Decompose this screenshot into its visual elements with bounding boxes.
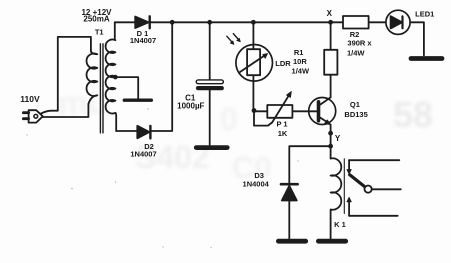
transistor Q1 emitter stroke with arrow: [320, 118, 327, 123]
LDR circle: [236, 45, 273, 82]
transformer T1 primary winding: [87, 51, 98, 105]
svg-text:R1: R1: [294, 48, 304, 57]
potentiometer P1 arrow: [272, 95, 289, 123]
plug body: [29, 110, 43, 122]
svg-text:X: X: [327, 9, 333, 18]
diode D1: [135, 17, 148, 29]
transistor Q1 collector stroke: [320, 97, 330, 104]
node D2 rail junction: [170, 20, 175, 25]
node X: [328, 20, 333, 25]
svg-text:1N4004: 1N4004: [243, 180, 270, 189]
LDR diagonal arrow: [240, 55, 265, 72]
svg-text:10R: 10R: [293, 57, 307, 66]
wire LDR bottom to P1 junction: [252, 75, 254, 110]
ground K1: [318, 239, 345, 244]
wire D2 cathode up to top rail: [151, 22, 172, 131]
wire R2 to LED1: [369, 21, 386, 23]
wire C1 branch: [209, 22, 211, 145]
svg-text:1000µF: 1000µF: [177, 101, 204, 110]
svg-text:T1: T1: [95, 27, 104, 36]
LDR light arrow 2: [233, 34, 238, 40]
faint page show-through watermarks: [57, 83, 433, 185]
resistor R2: [343, 16, 369, 29]
wire Q1 emitter down through Y to relay coil: [330, 125, 332, 159]
wire primary top: plug to transformer primary: [41, 37, 91, 114]
transformer T1 core: [100, 44, 103, 133]
relay armature bar: [350, 175, 366, 188]
ground center tap: [124, 98, 151, 101]
svg-text:1N4007: 1N4007: [130, 150, 156, 159]
LDR light arrow 1: [227, 36, 232, 42]
wire R1 branch: X down to R1: [330, 22, 332, 50]
svg-text:LED1: LED1: [415, 9, 434, 18]
svg-text:0: 0: [220, 101, 238, 137]
relay common line: [372, 188, 401, 190]
wire top rail left (secondary top to D1): [115, 21, 135, 23]
diode D3 (cathode up): [282, 186, 297, 201]
LED1 circle: [386, 10, 410, 34]
ground LED1: [411, 56, 442, 61]
svg-text:1K: 1K: [278, 129, 288, 138]
relay contact NC top line: [349, 159, 399, 161]
plug prong top: [23, 111, 28, 114]
transformer T1 secondary winding: [106, 22, 117, 131]
svg-text:Q1: Q1: [350, 100, 360, 109]
svg-text:250mA: 250mA: [83, 15, 109, 24]
svg-text:LDR: LDR: [275, 59, 291, 68]
wire P1 right to Q1 base: [292, 110, 308, 112]
relay contact down arrow: [348, 160, 350, 170]
svg-text:Y: Y: [335, 134, 341, 143]
svg-text:P 1: P 1: [276, 120, 287, 129]
relay separator line: [343, 159, 345, 214]
wire LDR branch top: [252, 22, 254, 49]
ground D3: [278, 239, 305, 244]
capacitor C1 plates: [196, 80, 223, 84]
relay contact NO bottom line: [349, 215, 398, 217]
LDR resistor body: [247, 49, 260, 75]
svg-text:1/4W: 1/4W: [292, 67, 310, 76]
wire center tap to ground: [115, 77, 138, 98]
plug prong bottom: [23, 117, 28, 120]
relay armature pivot circle: [365, 186, 372, 193]
node C1 junction: [207, 20, 212, 25]
wire Y node to D3: [289, 146, 330, 183]
wire R1 to Q1 collector: [330, 75, 332, 98]
wire top rail (D1 cathode to R2): [150, 21, 343, 23]
wire primary bottom: plug to transformer primary: [43, 104, 89, 117]
svg-text:1/4W: 1/4W: [347, 48, 365, 57]
node center tap: [113, 75, 118, 80]
node LDR junction: [251, 20, 256, 25]
diode D2: [137, 126, 149, 139]
wire D2 bottom rail: [116, 130, 137, 132]
LED1 diode: [391, 16, 402, 28]
transistor Q1 base bar: [317, 102, 321, 121]
relay up arrow: [348, 202, 350, 216]
wire LED1 to ground: [411, 22, 424, 55]
wire junction to P1 left: [254, 110, 267, 112]
resistor R1: [324, 50, 337, 75]
svg-text:BD135: BD135: [344, 110, 367, 119]
svg-text:K 1: K 1: [334, 220, 346, 229]
node Y2: [328, 144, 333, 149]
node Y: [328, 131, 333, 136]
relay K1 coil: [331, 158, 342, 239]
ground C1: [196, 145, 227, 150]
node LDR-P1: [252, 108, 257, 113]
junction dots: [113, 20, 333, 149]
scan specks: [26, 108, 298, 248]
transistor Q1 circle: [309, 98, 336, 125]
svg-text:390R x: 390R x: [347, 38, 372, 47]
potentiometer P1 body: [267, 105, 292, 118]
svg-text:1N4007: 1N4007: [130, 36, 156, 45]
svg-text:110V: 110V: [20, 94, 40, 104]
svg-text:58: 58: [393, 94, 433, 135]
wire P1 wiper loop: [254, 111, 272, 126]
wire D3 anode to ground: [288, 201, 290, 239]
transistor Q1 base wire: [308, 110, 316, 112]
